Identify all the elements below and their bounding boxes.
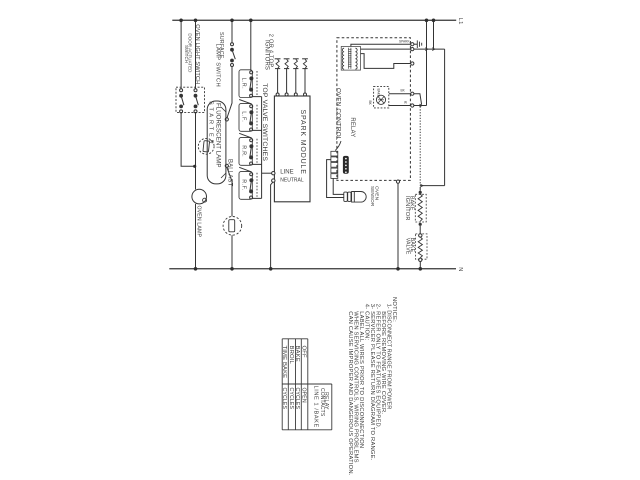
svg-text:BK: BK [368, 101, 372, 106]
svg-text:CONTACTS: CONTACTS [319, 388, 325, 417]
svg-text:OVEN LAMP: OVEN LAMP [196, 206, 202, 238]
svg-text:OVEN CONTROL: OVEN CONTROL [334, 88, 341, 141]
svg-text:BROIL: BROIL [288, 346, 294, 365]
svg-text:TIME BAKE: TIME BAKE [281, 346, 287, 379]
svg-text:OVEN LIGHT SWITCH: OVEN LIGHT SWITCH [194, 24, 200, 84]
svg-text:VALVE: VALVE [405, 238, 411, 255]
svg-text:LINE 1 /BAKE: LINE 1 /BAKE [313, 386, 319, 428]
svg-text:R.F.: R.F. [241, 179, 247, 191]
svg-text:NEUTRAL: NEUTRAL [280, 178, 304, 184]
svg-text:CYCLES: CYCLES [288, 388, 294, 410]
svg-text:IGNITOR: IGNITOR [404, 196, 410, 221]
svg-text:L.R.: L.R. [241, 78, 247, 90]
svg-text:L1: L1 [457, 18, 463, 25]
svg-text:BAKE: BAKE [294, 346, 300, 362]
svg-text:CAN CAUSE IMPROPER AND DANGERO: CAN CAUSE IMPROPER AND DANGEROUS OPERATI… [347, 311, 353, 476]
svg-text:RELAY: RELAY [349, 117, 355, 137]
svg-text:SPARK MODULE: SPARK MODULE [299, 110, 306, 175]
svg-text:STARTER: STARTER [208, 101, 214, 146]
svg-text:FLUORESCENT LAMP: FLUORESCENT LAMP [214, 103, 221, 168]
svg-text:TOP VALVE SWITCHES: TOP VALVE SWITCHES [261, 83, 268, 161]
svg-text:OPEN: OPEN [300, 388, 306, 403]
svg-text:BALLAST: BALLAST [227, 159, 233, 187]
svg-text:SWITCH: SWITCH [184, 45, 189, 63]
svg-text:CYCLES: CYCLES [294, 388, 300, 410]
svg-text:CYCLES: CYCLES [281, 388, 287, 410]
svg-text:N: N [457, 267, 463, 271]
svg-text:W: W [404, 101, 407, 105]
svg-text:IGNITORS: IGNITORS [263, 40, 269, 70]
svg-text:OFF: OFF [300, 346, 306, 358]
svg-text:LAMP SWITCH: LAMP SWITCH [214, 44, 220, 87]
svg-text:R.R.: R.R. [241, 145, 247, 157]
svg-text:L.F.: L.F. [241, 111, 247, 122]
svg-text:LINE: LINE [280, 169, 293, 175]
svg-text:SPARK: SPARK [399, 40, 410, 44]
svg-text:SENSOR: SENSOR [370, 186, 375, 207]
svg-text:BAKE: BAKE [377, 89, 381, 98]
svg-text:BK: BK [401, 89, 406, 93]
